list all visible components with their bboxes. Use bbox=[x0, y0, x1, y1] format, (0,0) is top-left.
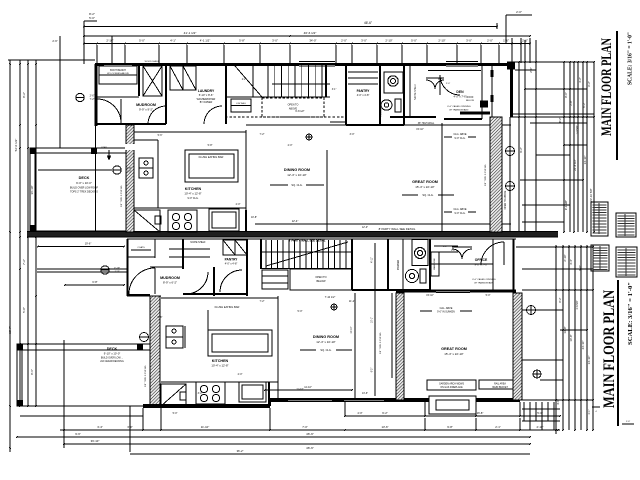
svg-text:KITCHEN: KITCHEN bbox=[185, 187, 202, 191]
title underline (top half) bbox=[616, 31, 618, 160]
svg-text:5/8" TYPE X GYP. BD.: 5/8" TYPE X GYP. BD. bbox=[145, 365, 147, 387]
right dim ticks (top half) bbox=[518, 61, 520, 63]
svg-text:SCALE: 3/16" = 1'-0": SCALE: 3/16" = 1'-0" bbox=[627, 282, 634, 345]
svg-text:BUILD OVER LOW ...: BUILD OVER LOW ... bbox=[101, 358, 124, 360]
svg-text:4'-11": 4'-11" bbox=[372, 257, 374, 263]
svg-text:W/ LOCKERS ABOVE: W/ LOCKERS ABOVE bbox=[107, 72, 129, 75]
svg-text:8'-2": 8'-2" bbox=[558, 117, 562, 122]
extra right-side horizontal connectors (top half) bbox=[536, 154, 570, 156]
svg-text:BOOT BENCH: BOOT BENCH bbox=[110, 69, 126, 72]
wall: stair divider x=253 (top unit) bbox=[252, 64, 254, 97]
door arc: den entry (top unit) bbox=[440, 75, 460, 95]
right horizontal connectors (bottom half) bbox=[516, 246, 593, 248]
svg-text:STEP: STEP bbox=[101, 147, 107, 149]
symbol: column circles east side (top unit) bbox=[506, 147, 515, 156]
svg-text:MUDROOM: MUDROOM bbox=[160, 276, 180, 280]
dashed hall line (top unit) bbox=[225, 116, 345, 118]
wall: top unit west lower (deck interface) bbox=[95, 126, 97, 232]
svg-text:8' PARTY WALL SEE DETAIL: 8' PARTY WALL SEE DETAIL bbox=[379, 227, 416, 231]
svg-text:2'-10": 2'-10" bbox=[438, 39, 445, 43]
svg-text:LAUNDRY: LAUNDRY bbox=[198, 89, 215, 93]
interior hall wall top unit bbox=[330, 121, 346, 123]
dimension extension stubs from top wall to dim rows bbox=[96, 45, 98, 63]
svg-text:2'-1": 2'-1" bbox=[588, 409, 591, 414]
svg-text:1'-0": 1'-0" bbox=[626, 421, 631, 423]
post: corner post top-right of unit bbox=[507, 62, 515, 70]
wall: bottom unit south exterior (kitchen block) bbox=[143, 404, 270, 408]
svg-text:15'-10": 15'-10" bbox=[416, 128, 424, 131]
title block box 4 (bottom half) bbox=[616, 247, 637, 277]
svg-text:46'-6 1/2": 46'-6 1/2" bbox=[304, 31, 317, 35]
svg-text:7'-2": 7'-2" bbox=[22, 259, 26, 265]
wall: hatched east exterior (bottom unit) bbox=[513, 293, 522, 400]
svg-text:8' PARTY WALL SEE DETAIL: 8' PARTY WALL SEE DETAIL bbox=[289, 239, 326, 243]
dimension columns right of bottom unit bbox=[562, 245, 564, 430]
svg-text:36x80 BUFFET: 36x80 BUFFET bbox=[492, 387, 508, 389]
wall: fridge enclosure (bottom) bbox=[268, 382, 270, 406]
deck posts bbox=[30, 148, 36, 154]
stair: rail line (top unit) bbox=[225, 96, 330, 98]
interior line: dining/great divider bbox=[326, 150, 328, 232]
niche: vertical text NICHE SHELF bbox=[409, 64, 411, 117]
svg-text:10'-8": 10'-8" bbox=[569, 334, 573, 341]
svg-text:5/8" TYPE X GYP. BD.: 5/8" TYPE X GYP. BD. bbox=[121, 185, 123, 207]
symbol: ceiling fixture dining bbox=[306, 134, 312, 140]
svg-text:46'-6": 46'-6" bbox=[364, 21, 372, 25]
svg-text:OPEN TO ABOVE: OPEN TO ABOVE bbox=[504, 190, 507, 209]
wall: kitchen south closure (top unit) bbox=[134, 207, 246, 209]
dimension row: y=454 partial bbox=[130, 453, 530, 455]
left bottom stub bbox=[63, 340, 65, 448]
door arc: mudroom entry (top unit) bbox=[97, 99, 121, 123]
svg-text:9'-0": 9'-0" bbox=[578, 265, 582, 271]
svg-text:5/8" TYPE X GYP. BD.: 5/8" TYPE X GYP. BD. bbox=[485, 164, 487, 186]
svg-text:2'-0": 2'-0" bbox=[446, 83, 451, 85]
dim stub: x=112 upper left bbox=[111, 36, 113, 64]
fixture: refrigerator (bottom unit) bbox=[239, 382, 266, 402]
svg-text:4'-1 1/2": 4'-1 1/2" bbox=[200, 39, 211, 43]
svg-text:8'-0": 8'-0" bbox=[564, 92, 568, 98]
kitchen counter along hatched wall (top unit) bbox=[157, 140, 159, 208]
svg-text:7'-2": 7'-2" bbox=[260, 133, 265, 136]
svg-text:NICHE SHELF: NICHE SHELF bbox=[414, 84, 417, 100]
svg-text:GREAT ROOM: GREAT ROOM bbox=[412, 180, 438, 184]
door arc: deck entry (bottom unit) bbox=[129, 268, 155, 294]
dimension row: overall width 96'-6" (top) bbox=[84, 26, 497, 28]
svg-text:7'-2": 7'-2" bbox=[90, 98, 95, 101]
svg-text:9'-8": 9'-8" bbox=[447, 425, 453, 429]
svg-text:23'-10": 23'-10" bbox=[581, 341, 585, 350]
post: black post at great room corner bbox=[480, 101, 488, 108]
svg-text:2'-2": 2'-2" bbox=[242, 79, 247, 81]
svg-text:DEN: DEN bbox=[456, 90, 464, 94]
svg-text:PANTRY: PANTRY bbox=[357, 89, 371, 93]
svg-text:8'-6": 8'-6" bbox=[30, 369, 34, 375]
svg-text:14'-10": 14'-10" bbox=[587, 356, 591, 365]
wall: bottom unit east exterior upper bbox=[512, 239, 514, 293]
wardrobe cabinet (bottom office) bbox=[431, 252, 439, 276]
svg-text:13'-6": 13'-6" bbox=[362, 392, 368, 395]
svg-text:TOPS 2" TREX DECKING: TOPS 2" TREX DECKING bbox=[70, 191, 98, 194]
svg-text:7'-10 1/2": 7'-10 1/2" bbox=[325, 296, 336, 299]
wall: dining/great divider (bottom unit) bbox=[354, 293, 356, 400]
door arc: mudroom-hall (bottom unit) bbox=[186, 272, 208, 294]
svg-text:W/ TRANSOM ABV.: W/ TRANSOM ABV. bbox=[474, 282, 494, 285]
svg-text:2'-1": 2'-1" bbox=[495, 425, 501, 429]
svg-text:38'-7": 38'-7" bbox=[8, 326, 12, 334]
svg-text:11'-10": 11'-10" bbox=[304, 386, 312, 389]
counter line (bottom kitchen) bbox=[161, 381, 278, 383]
svg-text:SQ. CLG.: SQ. CLG. bbox=[320, 348, 332, 352]
svg-text:2x6 CEDAR DECKING: 2x6 CEDAR DECKING bbox=[100, 360, 124, 363]
svg-text:15'-4" x 22'-10": 15'-4" x 22'-10" bbox=[415, 185, 434, 189]
svg-text:2'-0": 2'-0" bbox=[238, 373, 243, 376]
wall: hatched fireplace wall east (top unit) bbox=[490, 117, 502, 232]
right dim ticks (bottom half) bbox=[555, 246, 557, 248]
fixture: refrigerator (top unit) bbox=[209, 209, 239, 231]
porch step line (bottom unit) bbox=[37, 268, 127, 270]
corner pantry diagonal (bottom unit) bbox=[161, 384, 186, 406]
svg-text:12'-4": 12'-4" bbox=[292, 219, 299, 223]
wall: mudroom closet row bbox=[99, 66, 137, 84]
left-bottom vertical stub x=130 bbox=[129, 406, 131, 452]
svg-text:9'-0" CLG.: 9'-0" CLG. bbox=[454, 137, 465, 140]
svg-text:3'-4": 3'-4" bbox=[569, 259, 573, 265]
svg-text:5'-0": 5'-0" bbox=[139, 39, 145, 43]
interior long line top unit y=130 bbox=[134, 131, 246, 133]
svg-text:2'-0": 2'-0" bbox=[438, 79, 443, 81]
dimension row: y=444 long bbox=[64, 443, 530, 445]
svg-text:2'-0": 2'-0" bbox=[451, 250, 456, 252]
dimension column: left x=10 (full height) bbox=[9, 60, 11, 452]
title block box 3 (bottom half) bbox=[591, 245, 609, 271]
svg-text:12'-0": 12'-0" bbox=[362, 226, 368, 229]
svg-text:6'-2": 6'-2" bbox=[372, 368, 374, 373]
svg-text:15'-4" x 22'-10": 15'-4" x 22'-10" bbox=[444, 352, 463, 356]
door arc: mudroom to kitchen bbox=[148, 106, 166, 124]
svg-text:SQ. CLG.: SQ. CLG. bbox=[422, 193, 434, 197]
wall: interior wall over great room (east wing) bbox=[460, 112, 490, 115]
svg-text:6'-8 1/2": 6'-8 1/2" bbox=[295, 110, 304, 113]
deck posts (bottom unit) bbox=[17, 344, 23, 350]
svg-text:W/ TRANSOM ABV.: W/ TRANSOM ABV. bbox=[449, 109, 469, 112]
small left-bottom horizontal line bbox=[20, 415, 143, 417]
svg-text:1'-3": 1'-3" bbox=[127, 171, 132, 174]
symbol: ceiling fixture (bottom dining) bbox=[331, 304, 337, 310]
window: south wall window segments (bottom) bbox=[288, 399, 332, 402]
dimension columns right of top unit bbox=[518, 62, 520, 232]
deck: top unit deck outline bbox=[30, 148, 127, 231]
svg-text:5'-8": 5'-8" bbox=[208, 144, 213, 147]
closet: double doors (bottom office) bbox=[452, 249, 462, 259]
wall: bottom unit west exterior bbox=[126, 239, 128, 296]
svg-text:SQ. CLG.: SQ. CLG. bbox=[291, 183, 303, 187]
svg-text:5'-6": 5'-6" bbox=[158, 134, 163, 137]
svg-text:46'-6": 46'-6" bbox=[306, 432, 314, 436]
corner pantry diagonal (top unit) bbox=[134, 210, 160, 232]
wall: stair east wall (top unit) bbox=[325, 64, 327, 97]
wall: west jog to hatch band bbox=[127, 294, 150, 296]
svg-text:WASHER/DRYER: WASHER/DRYER bbox=[197, 98, 216, 101]
svg-text:2'-10": 2'-10" bbox=[106, 39, 113, 43]
svg-text:2'-10": 2'-10" bbox=[563, 254, 567, 261]
svg-text:FLUSH EATING BAR: FLUSH EATING BAR bbox=[199, 155, 224, 159]
svg-text:4'-0" x 7'-6": 4'-0" x 7'-6" bbox=[453, 95, 466, 99]
svg-text:2'-0": 2'-0" bbox=[236, 203, 241, 206]
bay: garden window / fireplace bump-out bbox=[429, 396, 476, 414]
right horizontal connector lines (top half) bbox=[515, 61, 594, 63]
fixture: toilet (bottom unit powder) bbox=[406, 269, 419, 282]
svg-text:2'-0": 2'-0" bbox=[443, 246, 448, 248]
svg-text:8'-2": 8'-2" bbox=[22, 92, 26, 98]
dimension stubs below south wall bbox=[344, 402, 346, 416]
svg-text:34'-0": 34'-0" bbox=[309, 39, 316, 43]
label: GARDEN ARCH WINDOW ON GAS FIREPLACE (boxed) bbox=[427, 380, 476, 390]
fixture: powder toilet (top unit) bbox=[381, 100, 392, 110]
wall: mudroom north inner wall y=97 bbox=[95, 96, 139, 98]
svg-text:LOW WALL: LOW WALL bbox=[236, 102, 246, 105]
svg-text:6'-2": 6'-2" bbox=[587, 81, 591, 87]
wall: hatched wall left of kitchen (bottom unit) bbox=[150, 296, 160, 406]
svg-text:16'-8": 16'-8" bbox=[477, 411, 484, 415]
label: RAIL AREA BUFFET bbox=[479, 380, 521, 389]
svg-text:9'-0" IN SUNKEN: 9'-0" IN SUNKEN bbox=[437, 312, 455, 314]
svg-text:7'-2": 7'-2" bbox=[260, 300, 265, 303]
fixture: cooktop (top unit) bbox=[168, 210, 197, 232]
wall: den south walls bbox=[390, 116, 436, 118]
svg-text:RAIL AREA: RAIL AREA bbox=[494, 383, 506, 386]
svg-text:5'-6": 5'-6" bbox=[158, 316, 163, 319]
stair: to basement (bottom unit) bbox=[260, 239, 262, 269]
extra right-side connectors (bottom half) bbox=[522, 309, 563, 311]
dimension column: left x=36 bbox=[35, 60, 37, 406]
wall: closet/pantry partitions (bottom unit top band) bbox=[182, 239, 184, 269]
svg-text:13'-6": 13'-6" bbox=[381, 425, 388, 429]
window sill marks north wall bbox=[299, 61, 335, 63]
svg-text:6'-8": 6'-8" bbox=[92, 280, 97, 284]
svg-text:9'-2": 9'-2" bbox=[519, 147, 523, 153]
svg-text:DECK: DECK bbox=[107, 347, 118, 351]
svg-text:5'-0": 5'-0" bbox=[173, 412, 178, 415]
svg-text:5'-8": 5'-8" bbox=[239, 39, 245, 43]
svg-text:FLUSH EATING BAR: FLUSH EATING BAR bbox=[215, 305, 240, 309]
wall: step between south walls bbox=[269, 400, 271, 406]
hatch band door gap bbox=[125, 144, 135, 150]
svg-text:9'-0" x 10'-0": 9'-0" x 10'-0" bbox=[76, 181, 92, 185]
title block box 1 (top half) bbox=[591, 202, 608, 236]
svg-text:5'-0": 5'-0" bbox=[298, 310, 303, 313]
svg-text:5'-0": 5'-0" bbox=[89, 16, 95, 20]
svg-text:2'-0": 2'-0" bbox=[288, 144, 293, 147]
svg-text:41'-1 1/2": 41'-1 1/2" bbox=[184, 31, 197, 35]
svg-text:9'-6": 9'-6" bbox=[75, 432, 81, 436]
svg-text:12'-4" x 10'-10": 12'-4" x 10'-10" bbox=[316, 340, 335, 344]
dimension row: segmented top dims bbox=[84, 43, 530, 45]
svg-text:9'-0" CLG.: 9'-0" CLG. bbox=[187, 197, 198, 200]
svg-text:MAIN FLOOR PLAN: MAIN FLOOR PLAN bbox=[599, 38, 615, 136]
svg-text:4'-0" x 4'-8": 4'-0" x 4'-8" bbox=[225, 263, 238, 266]
svg-text:14'-10": 14'-10" bbox=[583, 156, 587, 165]
svg-text:5/8" TYPE X GYP. BD.: 5/8" TYPE X GYP. BD. bbox=[380, 332, 382, 354]
svg-text:15'-10": 15'-10" bbox=[426, 294, 434, 297]
svg-text:3'-0": 3'-0" bbox=[466, 39, 472, 43]
svg-text:GREAT ROOM: GREAT ROOM bbox=[441, 347, 467, 351]
dimension row: 46'-6 1/2" (top second) bbox=[84, 35, 530, 37]
svg-text:BELOW: BELOW bbox=[466, 100, 475, 102]
hatch wall: left of great room (bottom unit) bbox=[396, 293, 404, 400]
dimension row: y=416 (bottom inner) bbox=[345, 415, 560, 417]
svg-text:4'-1": 4'-1" bbox=[170, 39, 176, 43]
svg-text:3'-2": 3'-2" bbox=[198, 392, 203, 395]
closet: bifold doors (top den) bbox=[426, 80, 435, 89]
svg-text:OPEN TO: OPEN TO bbox=[315, 276, 326, 279]
closet box under stair rail (bottom unit) bbox=[262, 270, 288, 289]
closet with X (top unit) bbox=[143, 66, 162, 96]
title block box 2 (top half) bbox=[616, 213, 636, 237]
svg-text:5'-10" x 8'-6": 5'-10" x 8'-6" bbox=[199, 93, 214, 97]
fixture: kitchen sink (top unit) bbox=[139, 158, 153, 168]
svg-text:10'-4" x 12'-8": 10'-4" x 12'-8" bbox=[211, 364, 228, 368]
dim line: above south wall (bottom dining) bbox=[265, 389, 352, 391]
svg-text:3'-4": 3'-4" bbox=[97, 425, 103, 429]
dim line: bottom unit left 6'-8 bbox=[65, 284, 124, 286]
svg-text:9'-10" x 10'-0": 9'-10" x 10'-0" bbox=[104, 352, 121, 356]
svg-text:DECK: DECK bbox=[79, 176, 90, 180]
svg-text:11'-10": 11'-10" bbox=[201, 425, 209, 429]
wall: top unit west exterior wall bbox=[95, 64, 98, 126]
wall: den east wall bbox=[481, 64, 483, 119]
svg-text:2'-6 5/8": 2'-6 5/8" bbox=[576, 300, 579, 309]
svg-text:2'-0": 2'-0" bbox=[487, 39, 493, 43]
svg-text:3'-0": 3'-0" bbox=[272, 39, 278, 43]
svg-text:DINING ROOM: DINING ROOM bbox=[284, 168, 310, 172]
svg-text:3'-0": 3'-0" bbox=[350, 133, 355, 136]
leader line: circled note to left dims bbox=[38, 169, 112, 171]
fixture: cooktop (bottom unit) bbox=[196, 382, 225, 404]
svg-text:NICHE SHELF: NICHE SHELF bbox=[190, 242, 206, 244]
ceiling break line across top unit bbox=[246, 124, 511, 126]
svg-text:WOOD SHELF: WOOD SHELF bbox=[145, 61, 160, 63]
svg-text:ON GAS FIREPLACE: ON GAS FIREPLACE bbox=[440, 386, 463, 389]
stair: tread lines (top unit) bbox=[267, 64, 269, 97]
symbol: meter circle southeast bbox=[533, 370, 541, 378]
svg-text:BELOW: BELOW bbox=[316, 280, 326, 283]
stair: cut-line diagonal (top unit) bbox=[235, 66, 262, 97]
interior line: kitchen/dining divider bbox=[245, 130, 247, 232]
south wall right extension bbox=[520, 399, 558, 401]
island: flush eating bar (bottom unit) bbox=[208, 330, 272, 356]
svg-text:POWDER: POWDER bbox=[381, 106, 383, 117]
dim line: vertical x=375 (bottom unit hall) bbox=[374, 243, 376, 396]
interior line: dining divider (bottom) bbox=[277, 296, 279, 400]
stair rail detail (top unit) bbox=[272, 83, 330, 85]
svg-text:CLG. ABVE: CLG. ABVE bbox=[453, 208, 466, 211]
svg-text:2'-10": 2'-10" bbox=[536, 425, 543, 429]
svg-text:4'-0" x 4'-8": 4'-0" x 4'-8" bbox=[357, 94, 370, 97]
svg-text:GARDEN ARCH WDWS: GARDEN ARCH WDWS bbox=[439, 383, 464, 386]
svg-text:52'-0 1/2": 52'-0 1/2" bbox=[14, 139, 18, 152]
svg-text:SCALE: 3/16" = 1'-0": SCALE: 3/16" = 1'-0" bbox=[627, 32, 634, 85]
dimension row: y=430 segmented bbox=[60, 429, 560, 431]
svg-text:6'-2": 6'-2" bbox=[382, 411, 388, 415]
svg-text:PANTRY: PANTRY bbox=[225, 258, 239, 262]
wall: bottom unit top band south of party wall bbox=[127, 238, 516, 240]
svg-text:6'-0" CASED OPENING: 6'-0" CASED OPENING bbox=[447, 105, 470, 108]
svg-text:4'-0": 4'-0" bbox=[357, 411, 362, 415]
fixture: powder sink counter (top unit) bbox=[384, 72, 403, 93]
svg-text:2'-8": 2'-8" bbox=[569, 100, 573, 106]
wall: mudroom/laundry partition verticals bbox=[138, 64, 140, 96]
svg-text:1'-3": 1'-3" bbox=[115, 271, 120, 274]
window: top wall window segments bbox=[299, 63, 335, 66]
svg-text:36'-2": 36'-2" bbox=[237, 449, 244, 453]
svg-text:1'-0 5/8": 1'-0 5/8" bbox=[576, 125, 579, 134]
svg-text:11'-2": 11'-2" bbox=[349, 300, 355, 303]
symbol: circled note near bottom deck bbox=[101, 266, 109, 274]
dimension column: left x=28 bbox=[27, 60, 29, 406]
symbol: circled note west of mudroom (top unit) bbox=[76, 93, 84, 101]
svg-text:6'-2": 6'-2" bbox=[582, 102, 586, 107]
door arc: laundry door bbox=[204, 106, 222, 124]
svg-text:7'-0": 7'-0" bbox=[302, 425, 308, 429]
svg-text:2'-0": 2'-0" bbox=[341, 39, 347, 43]
closet rod lines (bottom unit) bbox=[169, 248, 210, 250]
line: roof edge over den bbox=[428, 70, 481, 72]
svg-text:8'-9" x 6'-2": 8'-9" x 6'-2" bbox=[163, 281, 177, 285]
svg-text:22'-4 1/2": 22'-4 1/2" bbox=[573, 159, 577, 171]
svg-text:5'-0": 5'-0" bbox=[486, 294, 491, 297]
stair rail detail (bottom unit) bbox=[261, 251, 352, 253]
closet lines office (bottom) bbox=[434, 245, 458, 247]
line: sq ceiling boundary above party wall bbox=[255, 223, 511, 225]
svg-text:46'-6": 46'-6" bbox=[306, 446, 314, 450]
svg-text:ROOF: ROOF bbox=[467, 96, 474, 99]
svg-text:CLG. ABVE: CLG. ABVE bbox=[453, 133, 466, 136]
interior line bottom unit y=296 bbox=[161, 297, 278, 299]
svg-text:OPEN TO: OPEN TO bbox=[288, 104, 299, 107]
wall: hall/powder partitions (top unit) bbox=[345, 64, 347, 125]
svg-text:COATS: COATS bbox=[137, 246, 145, 249]
door arc: office entry (from east wall) bbox=[481, 242, 504, 265]
line: great room ceiling break vertical bbox=[441, 123, 443, 232]
fixture: sink counter (bottom unit powder) bbox=[412, 240, 428, 266]
svg-text:KITCHEN: KITCHEN bbox=[212, 359, 229, 363]
wall: bottom unit south exterior (great room block) bbox=[270, 398, 520, 402]
fixture: sink boxes (bottom unit) bbox=[166, 326, 183, 337]
wall: window mullion strip east (top unit) bbox=[491, 64, 493, 117]
wall: mudroom south wall bbox=[95, 123, 166, 125]
window: office/great wall (bottom unit) bbox=[436, 290, 470, 292]
symbol: circled note (top unit west) bbox=[113, 166, 121, 174]
svg-text:CAL. ABVE: CAL. ABVE bbox=[440, 307, 453, 310]
svg-text:36'-10": 36'-10" bbox=[30, 186, 34, 195]
closet: coats closet on party wall (bottom unit) bbox=[154, 239, 156, 258]
left dimension header line bbox=[8, 59, 95, 61]
svg-text:3'-0": 3'-0" bbox=[361, 39, 367, 43]
svg-text:10'-10": 10'-10" bbox=[351, 326, 353, 333]
svg-text:5'-8": 5'-8" bbox=[22, 307, 26, 313]
svg-text:23'-10 5/8": 23'-10 5/8" bbox=[589, 188, 593, 201]
dimension stub: deck left bbox=[59, 36, 61, 148]
title underline (bottom half) bbox=[617, 280, 619, 426]
wall: top unit east exterior wall bbox=[510, 64, 513, 117]
dimension stub: top-left 2'-0" marker bbox=[506, 14, 532, 16]
svg-text:13'-8": 13'-8" bbox=[563, 326, 567, 333]
svg-text:10'-8": 10'-8" bbox=[251, 216, 257, 219]
island: flush eating bar (top unit) bbox=[185, 150, 238, 182]
svg-text:9'-9" x 9'-2": 9'-9" x 9'-2" bbox=[139, 108, 153, 112]
washer/dryer boxes (bottom unit) bbox=[223, 240, 235, 255]
